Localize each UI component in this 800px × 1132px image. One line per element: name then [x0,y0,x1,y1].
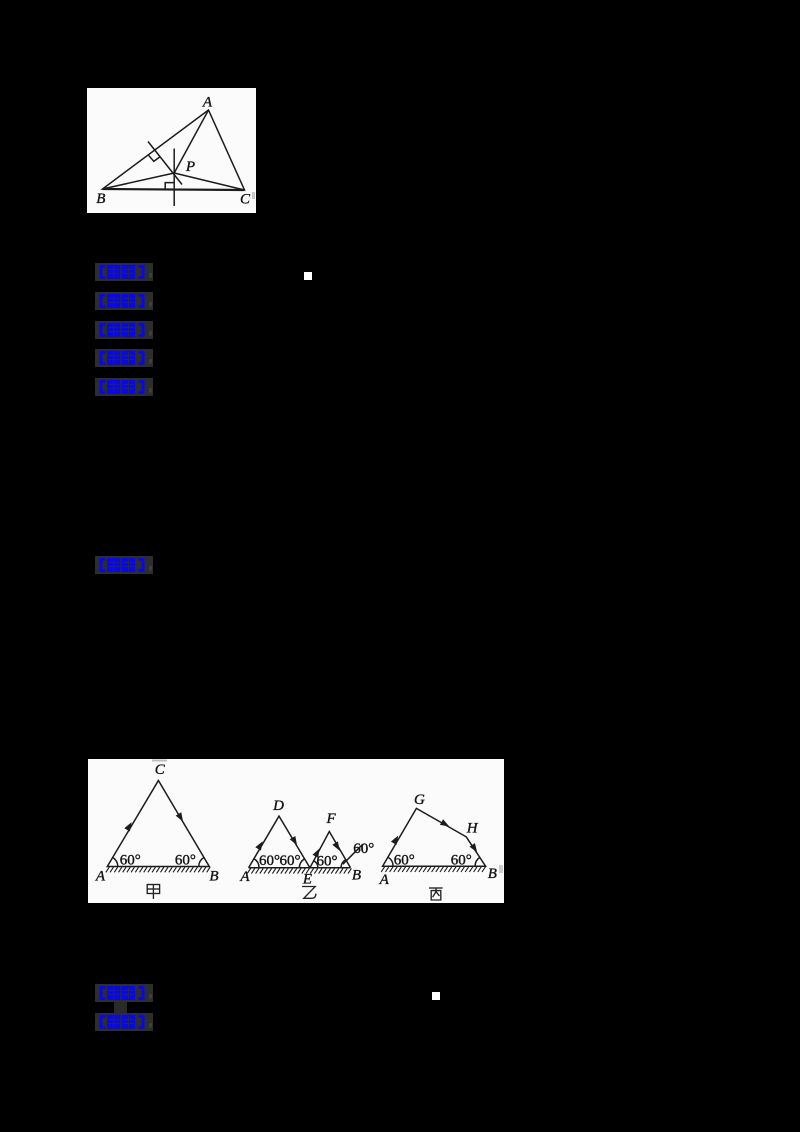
svg-text:G: G [414,792,425,808]
svg-text:60°: 60° [280,853,301,869]
svg-text:A: A [379,872,390,888]
svg-text:E: E [302,872,312,888]
svg-text:C: C [155,762,166,778]
svg-text:A: A [239,869,250,885]
svg-text:60°: 60° [317,854,338,870]
svg-text:B: B [488,866,497,882]
svg-text:P: P [185,159,195,175]
svg-text:B: B [352,868,361,884]
svg-text:60°: 60° [175,853,196,869]
svg-text:A: A [95,869,106,885]
svg-text:60°: 60° [259,853,280,869]
svg-text:60°: 60° [353,841,374,857]
svg-text:60°: 60° [120,853,141,869]
svg-text:H: H [466,821,479,837]
svg-text:F: F [326,811,337,827]
svg-text:A: A [202,95,213,111]
svg-text:C: C [240,191,251,207]
svg-text:B: B [96,191,105,207]
svg-text:B: B [209,868,218,884]
svg-text:60°: 60° [451,853,472,869]
svg-text:D: D [272,798,284,814]
svg-text:60°: 60° [394,853,415,869]
